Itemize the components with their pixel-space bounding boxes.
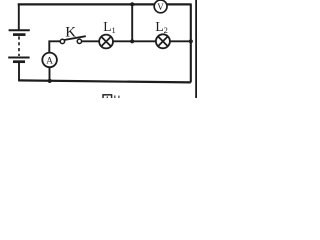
svg-text:L2: L2	[155, 19, 168, 35]
svg-text:K: K	[65, 25, 76, 41]
svg-text:L1: L1	[103, 19, 116, 35]
svg-text:V: V	[157, 2, 164, 12]
svg-text:A: A	[46, 56, 53, 66]
